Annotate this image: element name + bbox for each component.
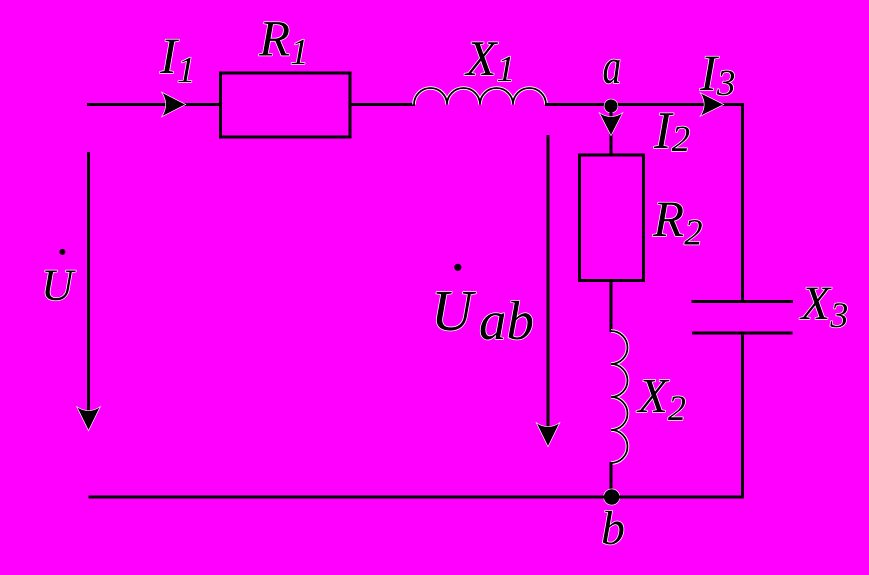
arrowhead U voltage arrow [78,408,100,431]
capacitor X3 bottom plate [692,332,793,335]
dot over U [59,249,65,255]
wire R2 to X2 [610,280,613,332]
arrowhead I3 current arrow [701,94,723,116]
inductor X2 [611,331,628,463]
label U (source voltage) [45,271,76,301]
label R1 [259,22,305,64]
voltage arrow U line [87,152,90,414]
capacitor X3 top plate [692,300,794,303]
label a (node a) [604,60,620,84]
label I2 [654,113,690,151]
node b [604,489,620,505]
wire capacitor down to bottom-right corner [741,335,744,499]
label X1 [464,42,511,81]
label I3 [700,57,734,96]
node a [604,99,617,112]
wire node a down to R2 [610,106,613,156]
dot over Uab [454,264,461,271]
resistor R2 [580,155,644,281]
arrowhead I1 current arrow [163,93,186,116]
wire top-left segment [87,103,220,106]
wire bottom [89,496,745,499]
label X3 [799,288,847,328]
label b (node b) [603,511,624,545]
wire X1 to top-right corner, down to capacitor [545,105,743,303]
label X2 [636,380,685,420]
label R2 [653,203,702,245]
inductor X1 [414,88,546,105]
resistor R1 [221,73,351,137]
arrowhead I2 current arrow [600,114,622,136]
wire X2 to node b [610,462,613,498]
voltage arrow Uab line [547,135,550,430]
wire R1 to X1 [350,103,415,106]
label Uab [436,292,476,331]
arrowhead Uab voltage arrow [537,424,559,447]
label I1 [160,40,192,82]
